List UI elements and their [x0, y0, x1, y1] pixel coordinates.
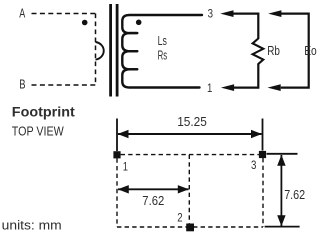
dimension 15.25: [118, 114, 263, 138]
wire: [281, 14, 309, 88]
svg-text:A: A: [19, 7, 25, 21]
extension line bottom right: [265, 226, 300, 228]
wire: [95, 14, 97, 86]
svg-text:3: 3: [208, 9, 213, 21]
footprint centerline: [188, 155, 190, 224]
svg-text:1: 1: [123, 162, 128, 174]
extension line pad 1: [116, 119, 118, 152]
svg-text:Ls: Ls: [158, 33, 168, 48]
extension line pad 3 right: [267, 153, 298, 155]
pad 3: [259, 151, 266, 158]
arrowhead Eo top: [268, 10, 281, 17]
dimension 7.62 horizontal: [118, 185, 189, 208]
svg-text:15.25: 15.25: [177, 114, 207, 129]
svg-text:3: 3: [251, 160, 256, 172]
dimension 7.62 vertical: [277, 155, 305, 226]
svg-text:Eo: Eo: [304, 43, 317, 58]
footprint outline right edge: [262, 158, 264, 227]
wire: [32, 84, 96, 86]
svg-text:1: 1: [207, 83, 212, 95]
svg-text:Footprint: Footprint: [12, 105, 76, 120]
arrowhead to node 1: [221, 84, 234, 91]
extension line pad 3: [262, 119, 264, 151]
svg-text:7.62: 7.62: [142, 193, 164, 208]
svg-text:Rb: Rb: [267, 43, 280, 58]
arrowhead Eo bottom: [268, 84, 281, 91]
svg-text:TOP VIEW: TOP VIEW: [12, 125, 64, 139]
pad 2: [186, 224, 194, 232]
svg-text:units: mm: units: mm: [2, 218, 62, 233]
pad 1: [113, 151, 120, 158]
wire: [32, 13, 96, 15]
svg-text:Rs: Rs: [158, 47, 168, 62]
svg-text:2: 2: [177, 213, 182, 225]
arrowhead to node 3: [220, 10, 233, 17]
primary winding turn: [96, 42, 104, 60]
footprint outline bottom edge: [117, 226, 263, 228]
transformer secondary winding Ls: [122, 15, 202, 88]
polarity dot secondary: [136, 20, 142, 26]
svg-text:7.62: 7.62: [284, 188, 305, 202]
transformer core: [111, 4, 118, 97]
svg-text:B: B: [19, 78, 25, 92]
footprint outline top edge: [121, 154, 259, 156]
resistor Rb: [253, 39, 264, 66]
wire: [234, 65, 259, 88]
polarity dot primary: [82, 20, 88, 26]
wire: [233, 14, 258, 39]
footprint outline left edge: [116, 158, 118, 227]
